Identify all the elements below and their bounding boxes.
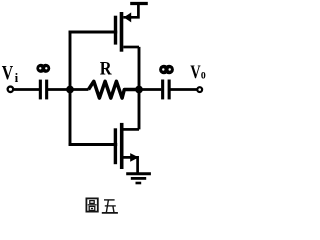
- svg-text:i: i: [15, 70, 19, 85]
- svg-text:o: o: [201, 67, 206, 82]
- svg-text:R: R: [100, 57, 113, 79]
- svg-text:V: V: [190, 61, 200, 82]
- svg-text:V: V: [2, 61, 13, 83]
